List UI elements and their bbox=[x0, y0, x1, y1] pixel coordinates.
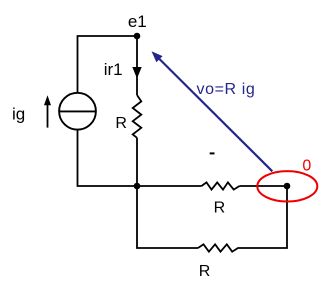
svg-text:ir1: ir1 bbox=[104, 60, 123, 79]
svg-text:0: 0 bbox=[302, 157, 311, 174]
svg-text:R: R bbox=[214, 199, 226, 216]
svg-text:vo=R ig: vo=R ig bbox=[197, 81, 256, 98]
svg-text:ig: ig bbox=[12, 105, 25, 124]
svg-text:e1: e1 bbox=[128, 12, 147, 31]
svg-text:R: R bbox=[115, 115, 127, 132]
svg-text:R: R bbox=[199, 263, 211, 280]
